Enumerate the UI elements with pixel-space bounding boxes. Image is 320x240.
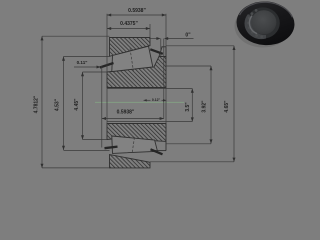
svg-text:4.53": 4.53" [55, 98, 61, 111]
svg-text:0.11": 0.11" [77, 60, 88, 65]
svg-text:4.45": 4.45" [74, 98, 80, 111]
svg-text:0.5938": 0.5938" [117, 109, 135, 115]
svg-text:0.4375": 0.4375" [120, 21, 138, 27]
svg-text:0": 0" [185, 33, 191, 39]
svg-text:4.65": 4.65" [224, 100, 230, 113]
svg-text:4.7812": 4.7812" [34, 95, 40, 113]
svg-text:0.12": 0.12" [152, 98, 161, 102]
svg-text:3.5": 3.5" [185, 102, 191, 112]
svg-text:0.5938": 0.5938" [128, 8, 146, 14]
svg-text:3.92": 3.92" [202, 100, 208, 113]
